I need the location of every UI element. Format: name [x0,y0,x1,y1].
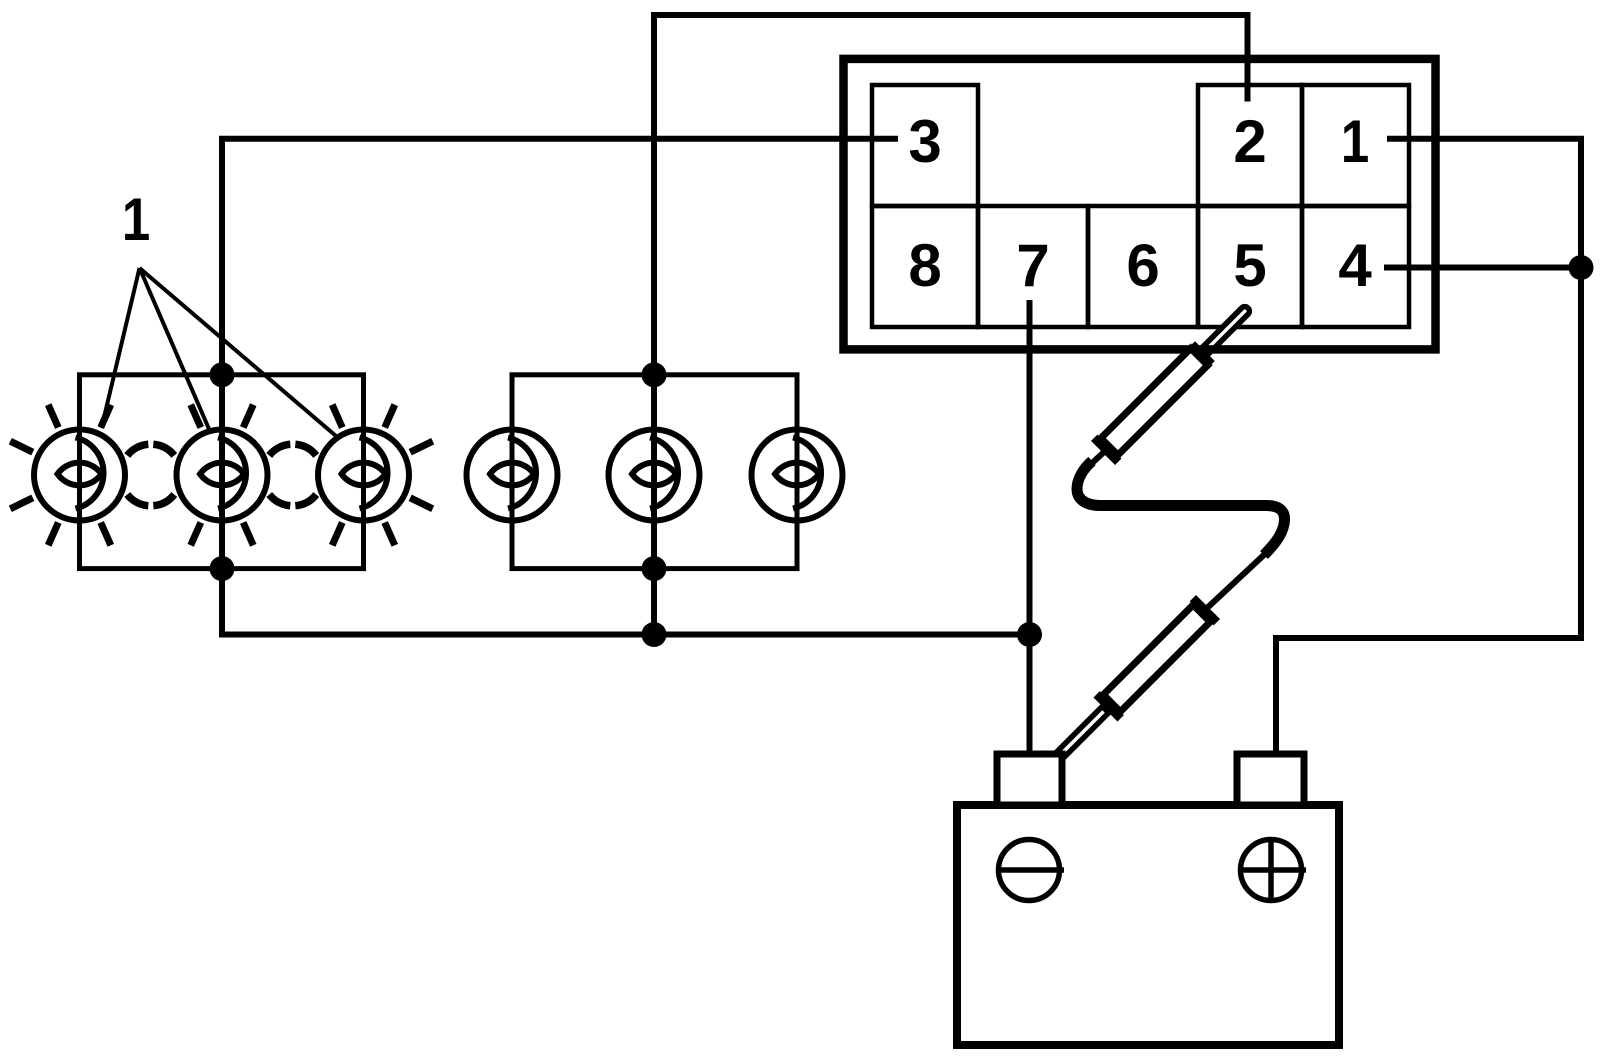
pin 1 label [1341,108,1369,175]
lamp L2 (lit) [177,405,268,546]
dashed lamp outline between L2 and L3 [269,444,316,506]
battery positive symbol [1241,840,1307,901]
wire pin7 down to battery negative terminal [1027,300,1033,757]
battery negative terminal post [997,754,1062,805]
svg-text:4: 4 [1338,232,1372,299]
svg-text:3: 3 [908,108,941,175]
wire pin1 right side down to battery positive terminal [1276,139,1581,757]
svg-text:7: 7 [1016,232,1049,299]
inline connector T1: male blade from pin 5 [1198,305,1251,358]
inline connector T2: male blade to battery negative [1057,706,1109,758]
middle lamp group box [512,375,797,569]
connector C1 outer housing [844,59,1436,350]
wire pin4 to right vertical junction [1384,265,1581,271]
lamp L3 (lit) [318,405,433,546]
junction dot 6 [1017,622,1042,647]
junction dot 2 [210,556,235,581]
junction dot 7 [1569,255,1594,280]
svg-text:2: 2 [1233,108,1266,175]
connector C1 cavity grid [872,85,1409,327]
wire stub from T1 flange [1090,452,1104,465]
wire diagonal down to T2 [1206,553,1266,609]
lamp L4 [467,430,558,521]
lamp L5 [609,430,700,521]
wire pin3 to left lamp group and down to ground bus [222,139,1030,635]
label 1 [122,186,150,253]
left lamp group box [80,375,364,569]
junction dot 3 [642,362,667,387]
battery G1 case [957,805,1339,1045]
battery positive terminal post [1237,754,1304,805]
svg-text:5: 5 [1233,232,1266,299]
battery negative symbol [999,840,1065,901]
svg-text:1: 1 [122,186,150,253]
lamp L1 (lit) [10,405,125,546]
junction dot 5 [642,622,667,647]
lamp L6 [752,430,843,521]
svg-text:1: 1 [1341,108,1369,175]
wire pin2 to middle lamp column (top link) [654,15,1248,635]
junction dot 1 [210,362,235,387]
inline connector T2: housing with end flanges [1093,595,1220,722]
leader lines from label 1 to lamps [102,268,337,436]
thick S-bend wire segment [1077,461,1285,555]
dashed lamp outline between L1 and L2 [127,444,174,506]
svg-text:8: 8 [908,232,941,299]
inline connector T1: housing with end flanges [1091,339,1217,465]
junction dot 4 [642,556,667,581]
svg-text:6: 6 [1126,232,1159,299]
